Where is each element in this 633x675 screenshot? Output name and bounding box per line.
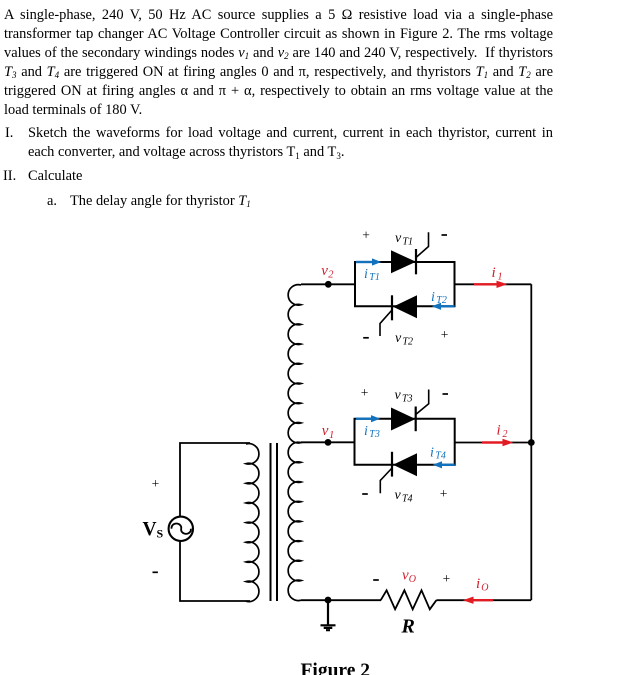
svg-text:v: v [395,388,402,403]
svg-text:v: v [395,231,402,246]
svg-text:i: i [431,290,435,305]
svg-text:R: R [401,615,415,637]
svg-text:T3: T3 [402,394,413,405]
svg-text:i: i [364,424,368,439]
svg-text:Figure 2: Figure 2 [301,661,371,675]
svg-text:+: + [361,385,369,400]
svg-text:S: S [157,527,164,541]
svg-text:+: + [152,476,160,491]
svg-text:+: + [362,228,370,243]
svg-text:T3: T3 [369,429,380,440]
svg-text:T4: T4 [435,451,446,462]
svg-text:v: v [321,263,328,279]
svg-text:+: + [443,571,451,586]
svg-text:T4: T4 [402,494,413,505]
svg-text:T1: T1 [369,272,380,283]
svg-text:V: V [143,519,157,540]
svg-text:v: v [395,331,402,346]
svg-text:O: O [409,574,416,585]
svg-text:2: 2 [503,429,508,440]
svg-text:i: i [364,267,368,282]
svg-text:2: 2 [328,270,334,281]
svg-text:T1: T1 [403,237,414,248]
svg-text:v: v [395,488,402,503]
svg-text:i: i [476,576,480,592]
svg-text:T2: T2 [436,295,447,306]
svg-text:i: i [430,446,434,461]
svg-text:+: + [441,327,449,342]
svg-text:1: 1 [498,272,503,283]
svg-text:v: v [322,423,329,439]
svg-text:i: i [497,423,501,439]
svg-text:+: + [440,486,448,501]
svg-text:1: 1 [329,430,334,441]
svg-text:T2: T2 [403,337,414,348]
svg-text:O: O [481,583,488,594]
svg-text:i: i [492,265,496,281]
